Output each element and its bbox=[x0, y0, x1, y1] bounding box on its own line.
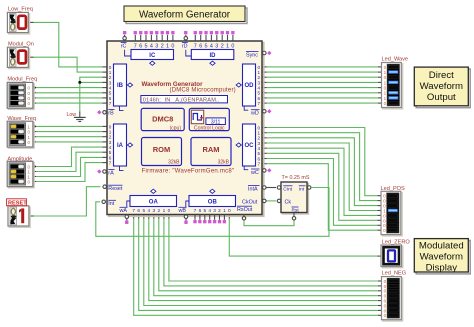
svg-text:RAM: RAM bbox=[202, 145, 219, 154]
wire OC bit3 to Led_POS row4 bbox=[262, 148, 381, 215]
svg-text:ROM: ROM bbox=[153, 145, 171, 154]
wire OD bit3 to Led_Wave row4 bbox=[262, 87, 382, 89]
svg-text:3: 3 bbox=[152, 208, 155, 214]
dip-switch Modul_Freq (0000) bbox=[7, 82, 34, 109]
label rB (overlined) bbox=[108, 110, 114, 117]
pin rA (unconnected) bbox=[97, 170, 107, 174]
svg-text:Ck: Ck bbox=[285, 199, 292, 205]
svg-text:rD: rD bbox=[182, 43, 188, 49]
label Led_Wave bbox=[382, 56, 409, 62]
svg-text:5: 5 bbox=[205, 43, 208, 49]
ground Low bbox=[67, 112, 86, 122]
label Led_ZERO bbox=[382, 240, 411, 246]
svg-text:3: 3 bbox=[213, 208, 216, 214]
pins ID bits 7..0 (unconnected) bbox=[194, 31, 235, 41]
svg-text:3: 3 bbox=[215, 43, 218, 49]
svg-text:IB: IB bbox=[117, 83, 124, 89]
port OA bbox=[127, 189, 177, 214]
note box Direct Waveform Output bbox=[414, 67, 470, 108]
value label instruction box 0146h bbox=[141, 96, 228, 104]
control logic box U3 bbox=[189, 108, 229, 131]
svg-text:1: 1 bbox=[223, 208, 226, 214]
svg-text:(cpu): (cpu) bbox=[170, 125, 182, 131]
wire Amplitude bit1 to IA bit5 bbox=[33, 152, 107, 171]
svg-text:Reset: Reset bbox=[108, 186, 123, 192]
label Reset (overlined) and pin bbox=[103, 185, 123, 192]
wire OD bit0 to Led_Wave row7 bbox=[262, 102, 382, 104]
svg-text:4: 4 bbox=[150, 43, 153, 49]
svg-text:Output: Output bbox=[427, 92, 456, 103]
svg-text:0: 0 bbox=[171, 43, 174, 49]
port ID bbox=[186, 50, 234, 66]
label rD and ID pin numbers bbox=[182, 42, 235, 49]
svg-text:6: 6 bbox=[199, 208, 202, 214]
svg-text:1: 1 bbox=[163, 208, 166, 214]
svg-text:32kB: 32kB bbox=[218, 159, 230, 165]
svg-text:2: 2 bbox=[218, 208, 221, 214]
wire OD bit1 to Led_Wave row6 bbox=[262, 97, 382, 99]
wire OC bit1 to Led_POS row6 bbox=[262, 159, 381, 226]
wire OC bit5 to Led_POS row2 bbox=[262, 138, 381, 206]
svg-text:5: 5 bbox=[203, 208, 206, 214]
wire OC bit7 to Led_POS row0 bbox=[262, 128, 381, 196]
led-bar Led_Wave (01010110) bbox=[382, 63, 403, 109]
svg-text:Waveform Generator: Waveform Generator bbox=[139, 9, 231, 20]
junction Amplitude pin0 bbox=[33, 165, 36, 168]
svg-text:OD: OD bbox=[245, 83, 255, 89]
pin wD (unconnected) bbox=[262, 109, 271, 113]
op-amp U2 DMC8 cpu box bbox=[141, 108, 184, 131]
wire OA bit3 to Led_NEG row3 bbox=[154, 215, 382, 296]
wire OC bit4 to Led_POS row3 bbox=[262, 143, 381, 211]
label wB (overlined) bbox=[178, 207, 187, 214]
svg-text:1: 1 bbox=[226, 43, 229, 49]
svg-text:2: 2 bbox=[161, 43, 164, 49]
wire Modul_Freq bit0 to IB bit4 bbox=[33, 87, 107, 89]
svg-text:Led_ZERO: Led_ZERO bbox=[382, 240, 411, 246]
svg-text:Led_Wave: Led_Wave bbox=[382, 56, 409, 62]
svg-text:7: 7 bbox=[258, 101, 261, 106]
label Wave_Freq bbox=[7, 116, 36, 122]
wire OA bit0 to Led_NEG row0 bbox=[169, 215, 382, 282]
label Led_NEG bbox=[382, 270, 407, 276]
node title box Waveform Generator bbox=[124, 6, 247, 24]
wire OA bit7 to Led_NEG row7 bbox=[134, 215, 382, 316]
port OD bbox=[236, 64, 260, 110]
label Int (overlined) and pin bbox=[102, 200, 116, 207]
svg-text:T= 0.25 mS: T= 0.25 mS bbox=[282, 175, 310, 181]
svg-text:Direct: Direct bbox=[429, 70, 454, 81]
svg-text:rC: rC bbox=[121, 43, 127, 49]
pin wB (unconnected) bbox=[184, 215, 188, 224]
svg-text:Modul_Freq: Modul_Freq bbox=[7, 76, 37, 82]
wire Modul_Freq bit2 to IB bit6 bbox=[33, 97, 107, 99]
svg-text:32kB: 32kB bbox=[168, 159, 180, 165]
memory RAM box bbox=[191, 138, 231, 166]
svg-text:6: 6 bbox=[199, 43, 202, 49]
wire RsOut to timer Rst bbox=[244, 220, 294, 225]
led-bar Led_POS (00010000) bbox=[381, 191, 402, 236]
label Led_POS bbox=[381, 186, 406, 192]
svg-text:0: 0 bbox=[383, 228, 386, 233]
wire OC bit2 to Led_POS row5 bbox=[262, 153, 381, 220]
switch RESET (input, value 1) bbox=[8, 206, 30, 228]
wire Modul_On to IB bit1 bbox=[28, 57, 107, 72]
pin wC (unconnected) bbox=[262, 168, 271, 172]
label Modul_On bbox=[8, 41, 34, 47]
svg-text:rB: rB bbox=[108, 110, 114, 116]
svg-text:Low: Low bbox=[67, 112, 77, 118]
led-bar Led_NEG (00000000) bbox=[382, 277, 403, 321]
svg-text:Led_NEG: Led_NEG bbox=[382, 270, 407, 276]
svg-text:IA: IA bbox=[117, 143, 124, 149]
wire IntA to timer CInt bbox=[262, 187, 276, 189]
svg-text:0: 0 bbox=[384, 101, 387, 106]
wire OC bit6 to Led_POS row1 bbox=[262, 133, 381, 201]
svg-text:CkOut: CkOut bbox=[242, 199, 258, 205]
svg-text:RsOut: RsOut bbox=[237, 207, 253, 213]
svg-text:7: 7 bbox=[258, 162, 261, 167]
wire Wave_Freq bit3 to IA bit3 bbox=[33, 141, 107, 143]
pins OB bits 7..1 (unconnected) bbox=[194, 215, 226, 224]
svg-text:Amplitude: Amplitude bbox=[7, 156, 32, 162]
wire OA bit4 to Led_NEG row4 bbox=[149, 215, 382, 301]
port OB bbox=[186, 189, 236, 214]
dip-switch Amplitude (0110) bbox=[7, 161, 34, 188]
wire OA bit2 to Led_NEG row2 bbox=[159, 215, 382, 291]
svg-text:Firmware: "WaveFormGen.mc8": Firmware: "WaveFormGen.mc8" bbox=[142, 168, 235, 174]
value label firmware bbox=[142, 168, 235, 174]
wire Amplitude bit0 to IA bit4 bbox=[33, 147, 107, 166]
wire OA bit1 to Led_NEG row1 bbox=[164, 215, 382, 286]
svg-text:OA: OA bbox=[149, 200, 159, 206]
svg-text:5: 5 bbox=[145, 43, 148, 49]
svg-text:OC: OC bbox=[245, 143, 255, 149]
junction ground/IB3 bbox=[78, 81, 81, 84]
op-amp U1 DMC8 microcomputer system (main chip) bbox=[107, 41, 264, 216]
label wA (overlined) bbox=[119, 207, 128, 214]
label wD (overlined) bbox=[250, 110, 260, 117]
svg-text:RESET: RESET bbox=[8, 201, 27, 207]
wire OB bit0 to Led_ZERO bbox=[229, 215, 381, 257]
value label T= 0.25 mS bbox=[282, 175, 310, 181]
port IA bbox=[109, 124, 133, 171]
svg-text:7: 7 bbox=[109, 101, 112, 106]
svg-text:6: 6 bbox=[139, 43, 142, 49]
label rA (overlined) bbox=[108, 170, 114, 177]
svg-text:5: 5 bbox=[142, 208, 145, 214]
wire Modul_Freq bit3 to IB bit7 bbox=[33, 102, 107, 104]
svg-text:Wave_Freq: Wave_Freq bbox=[7, 116, 36, 122]
svg-text:ID: ID bbox=[210, 53, 217, 59]
svg-text:0146h: IN A,(GENPARAM..: 0146h: IN A,(GENPARAM.. bbox=[143, 97, 220, 103]
svg-text:IntA: IntA bbox=[248, 186, 258, 192]
label wC (overlined) bbox=[250, 169, 260, 176]
svg-text:3/11: 3/11 bbox=[211, 119, 221, 125]
svg-text:7: 7 bbox=[134, 43, 137, 49]
svg-text:0: 0 bbox=[228, 208, 231, 214]
svg-text:Int: Int bbox=[108, 201, 114, 207]
svg-text:0: 0 bbox=[168, 208, 171, 214]
label Modul_Freq bbox=[7, 76, 37, 82]
wire Wave_Freq bit1 to IA bit1 bbox=[33, 131, 107, 133]
port OC bbox=[236, 124, 260, 170]
svg-text:4: 4 bbox=[208, 208, 211, 214]
wire Int net: timer Int to chip Int bbox=[96, 188, 329, 237]
label IntA (overlined) and pin bbox=[248, 186, 266, 193]
svg-text:DMC8: DMC8 bbox=[152, 115, 173, 124]
svg-text:IC: IC bbox=[149, 53, 156, 59]
label RsOut (overlined) and pin bbox=[237, 206, 253, 220]
label CkOut and pin bbox=[242, 199, 266, 205]
svg-text:Modulated: Modulated bbox=[419, 241, 464, 252]
timer U4 interrupt counter T=0.25mS bbox=[277, 182, 311, 220]
wire Amplitude bit2 to IA bit6 bbox=[33, 157, 107, 176]
svg-text:0: 0 bbox=[231, 43, 234, 49]
svg-text:Waveform: Waveform bbox=[420, 81, 463, 92]
pin rD (strobe, unconnected) bbox=[184, 31, 188, 41]
pin rC (strobe, unconnected) bbox=[123, 31, 127, 41]
svg-text:OB: OB bbox=[208, 200, 218, 206]
svg-text:Led_POS: Led_POS bbox=[381, 186, 406, 192]
wire Wave_Freq bit0 to IA bit0 bbox=[33, 125, 107, 127]
wire OD bit6 to Led_Wave row1 bbox=[262, 71, 382, 73]
switch Modul_On (input, value 0) bbox=[7, 47, 29, 68]
pin wA (unconnected) bbox=[125, 215, 129, 224]
pin Sync (unconnected) bbox=[262, 51, 271, 55]
label Low_Freq bbox=[8, 7, 33, 13]
port IC bbox=[125, 50, 174, 66]
wire Amplitude bit3 to IA bit7 bbox=[33, 163, 107, 182]
label Sync (overlined) bbox=[246, 51, 259, 58]
label RESET (boxed) bbox=[7, 199, 28, 207]
svg-text:7: 7 bbox=[194, 208, 197, 214]
pins IC bits 7..0 (unconnected) bbox=[134, 31, 175, 41]
label Waveform Generator (chip title) bbox=[142, 81, 236, 94]
svg-text:4: 4 bbox=[147, 208, 150, 214]
svg-text:7: 7 bbox=[132, 208, 135, 214]
wire CkOut to timer Ck bbox=[262, 200, 276, 202]
svg-text:(DMC8 Microcomputer): (DMC8 Microcomputer) bbox=[170, 88, 236, 94]
label Amplitude bbox=[7, 156, 32, 162]
svg-text:Modul_On: Modul_On bbox=[8, 41, 34, 47]
junction Modul_Freq pin0 bbox=[33, 86, 36, 89]
wire OD bit5 to Led_Wave row2 bbox=[262, 76, 382, 78]
wire Wave_Freq bit2 to IA bit2 bbox=[33, 136, 107, 138]
led-display Led_ZERO showing 0 bbox=[381, 245, 403, 268]
wire OD bit4 to Led_Wave row3 bbox=[262, 81, 382, 83]
svg-text:6: 6 bbox=[137, 208, 140, 214]
svg-text:wA: wA bbox=[119, 208, 128, 214]
svg-text:wC: wC bbox=[250, 170, 259, 176]
wire Low_Freq to IB bit0 bbox=[28, 22, 107, 67]
svg-text:wB: wB bbox=[178, 208, 187, 214]
wire ground Low to IB bit2 bbox=[80, 77, 107, 117]
label rC and IC pin numbers bbox=[121, 42, 175, 49]
switch Low_Freq (input, value 0) bbox=[7, 12, 29, 34]
svg-text:4: 4 bbox=[210, 43, 213, 49]
junction Wave_Freq pin0 bbox=[33, 125, 36, 128]
svg-text:Waveform: Waveform bbox=[420, 252, 463, 263]
svg-text:Display: Display bbox=[426, 262, 458, 273]
wire OD bit2 to Led_Wave row5 bbox=[262, 92, 382, 94]
wire OD bit7 to Led_Wave row0 bbox=[262, 66, 382, 68]
wire Modul_Freq bit1 to IB bit5 bbox=[33, 92, 107, 94]
svg-text:Int: Int bbox=[299, 186, 305, 192]
svg-text:Rst: Rst bbox=[292, 207, 300, 213]
wire OA bit5 to Led_NEG row5 bbox=[144, 215, 382, 306]
dip-switch Wave_Freq (1010) bbox=[7, 121, 34, 148]
svg-text:CInt: CInt bbox=[283, 186, 292, 192]
wire OC bit0 to Led_POS row7 bbox=[262, 164, 381, 231]
svg-text:7: 7 bbox=[109, 161, 112, 166]
svg-text:0: 0 bbox=[384, 313, 387, 318]
note box Modulated Waveform Display bbox=[414, 239, 470, 274]
memory ROM box bbox=[142, 138, 182, 166]
svg-text:Control Logic: Control Logic bbox=[194, 126, 225, 132]
svg-text:wD: wD bbox=[250, 111, 259, 117]
svg-text:Low_Freq: Low_Freq bbox=[8, 7, 33, 13]
svg-text:2: 2 bbox=[157, 208, 160, 214]
svg-text:Sync: Sync bbox=[246, 52, 258, 58]
wire ground branch to IB bit3 bbox=[80, 81, 107, 83]
svg-text:7: 7 bbox=[194, 43, 197, 49]
wire RESET to Reset pin bbox=[29, 187, 101, 216]
port IB bbox=[109, 64, 133, 111]
pin rB (unconnected) bbox=[97, 110, 107, 114]
wire OA bit6 to Led_NEG row6 bbox=[139, 215, 382, 311]
svg-text:3: 3 bbox=[155, 43, 158, 49]
svg-text:2: 2 bbox=[221, 43, 224, 49]
svg-text:rA: rA bbox=[108, 170, 114, 176]
svg-text:1: 1 bbox=[166, 43, 169, 49]
